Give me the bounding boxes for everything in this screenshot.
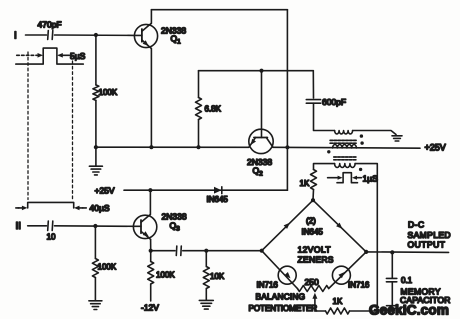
capacitor 600pF: [306, 100, 320, 104]
svg-text:2N338: 2N338: [247, 157, 272, 167]
resistor 100K (Q3 emitter): [148, 251, 154, 301]
wire input I to capacitor: [26, 34, 47, 36]
svg-text:0.1: 0.1: [401, 276, 413, 285]
resistor 100K (input bias): [93, 85, 99, 101]
transformer winding W2 (on +25V rail): [333, 145, 357, 149]
wire W3 left to 1K: [314, 164, 335, 170]
resistor 1K (bottom): [326, 308, 350, 314]
svg-text:I: I: [14, 31, 17, 42]
transistor Q3 2N338: [133, 215, 156, 240]
wire D-C sampled output: [366, 251, 448, 254]
transistor Q2 2N338: [249, 129, 273, 153]
wire capacitor to Q1 base: [55, 34, 135, 36]
svg-text:100K: 100K: [99, 88, 118, 97]
dashed timing line right: [72, 61, 74, 200]
wire Q3 emitter down: [150, 239, 152, 250]
node junction Q2 base feed: [259, 69, 263, 73]
svg-text:IN716: IN716: [257, 281, 279, 290]
W1 phase dot: [360, 134, 363, 137]
transformer winding W3: [335, 164, 355, 168]
wire drop continues to diode rail: [286, 147, 288, 190]
wire Q2 base vertical: [261, 71, 263, 130]
resistor 100K (input II): [92, 259, 98, 278]
wire Q1 collector up: [150, 10, 152, 24]
wire ground rail (left segment): [96, 146, 249, 148]
wire +25V rail (right segment): [273, 146, 420, 149]
W2 phase dot left: [327, 150, 330, 153]
svg-text:+25V: +25V: [425, 143, 446, 153]
wire +25V diode rail: [124, 189, 287, 191]
capacitor 10 (input II): [48, 221, 53, 231]
wire top rail drop to +25V rail: [286, 10, 288, 148]
svg-text:ZENERS: ZENERS: [298, 255, 334, 265]
node junction 6.8K/ground rail: [196, 145, 200, 149]
W2 phase dot right: [360, 141, 363, 144]
potentiometer wiper arrow: [312, 293, 317, 311]
svg-text:BALANCING: BALANCING: [256, 292, 306, 302]
ground (10K): [199, 300, 213, 309]
node junction memory capacitor: [390, 250, 394, 254]
wire top rail: [151, 9, 287, 11]
node junction II/100K: [93, 224, 97, 228]
wire capacitor to Q3 base: [55, 225, 134, 228]
node junction Q1 emitter/rail: [149, 145, 153, 149]
diode IN645 (rail): [214, 187, 222, 194]
ground (input II): [89, 301, 102, 310]
svg-text:SAMPLED: SAMPLED: [408, 230, 451, 240]
svg-text:+25V: +25V: [95, 186, 115, 196]
wire 6.8K top drop: [198, 71, 200, 98]
svg-text:-12V: -12V: [141, 303, 159, 313]
zener diode bridge arm lower-left (IN716): [262, 251, 298, 289]
node junction 10K top: [204, 249, 208, 253]
ground (memory capacitor): [387, 306, 398, 311]
pulse waveform I (5uS): [16, 48, 84, 64]
svg-text:250: 250: [305, 277, 319, 287]
capacitor 0.1 memory: [386, 278, 396, 281]
svg-text:40µS: 40µS: [90, 203, 110, 213]
svg-text:IN716: IN716: [348, 281, 370, 290]
node junction input/100K: [94, 33, 98, 37]
wire Q1 emitter down: [150, 48, 152, 147]
wire 1K to W3 right leg: [350, 310, 378, 312]
wire junction down to 100K: [94, 226, 96, 259]
diode bridge arm upper-right (IN645): [313, 200, 366, 252]
svg-text:POTENTIOMETER: POTENTIOMETER: [249, 304, 318, 313]
svg-text:GeekIC.com: GeekIC.com: [369, 303, 449, 318]
svg-text:100K: 100K: [98, 263, 117, 272]
ground (input section): [89, 166, 102, 175]
svg-text:470pF: 470pF: [38, 20, 62, 30]
svg-text:IN645: IN645: [302, 228, 324, 237]
svg-text:II: II: [16, 221, 22, 232]
wire input II to capacitor: [28, 225, 47, 227]
wire 600pF branch drop: [312, 71, 314, 98]
node junction Q3 emitter: [149, 249, 153, 253]
potentiometer 250 (element): [297, 286, 328, 292]
node bridge right: [364, 250, 368, 254]
node junction Q3 collector/rail: [148, 188, 152, 192]
wire wiper to 1K bottom: [315, 310, 326, 312]
svg-text:10K: 10K: [210, 272, 225, 281]
transformer core (upper): [330, 140, 356, 143]
svg-text:IN645: IN645: [207, 195, 229, 204]
capacitor C 470pF: [48, 31, 53, 40]
wire memory capacitor to ground: [391, 282, 393, 306]
wire junction down to 100K: [95, 35, 97, 85]
ground (W1): [392, 136, 402, 141]
svg-text:100K: 100K: [156, 271, 175, 280]
svg-text:6.8K: 6.8K: [205, 105, 222, 114]
wire 6.8K bottom to ground rail: [198, 120, 200, 148]
transistor Q1 2N338: [134, 23, 157, 48]
wire 6.8K rail: [199, 70, 314, 72]
resistor 10K: [203, 251, 209, 301]
svg-text:12VOLT: 12VOLT: [298, 245, 331, 255]
capacitor (coupling, emitter rail): [176, 246, 181, 256]
pulse waveform 1uS symbol: [328, 173, 362, 183]
wire W1 right to ground: [353, 131, 396, 135]
zener diode bridge arm lower-right (IN716): [329, 252, 367, 289]
wire ground stub: [95, 147, 97, 166]
wire output node to memory capacitor: [391, 252, 393, 278]
svg-text:D-C: D-C: [408, 220, 425, 230]
svg-text:1K: 1K: [300, 179, 310, 188]
dashed timing line left: [27, 52, 29, 200]
node bridge left: [260, 249, 264, 253]
wire Q3 collector up: [149, 190, 151, 214]
wire 600pF to W1: [314, 103, 335, 130]
resistor 1K (bridge feed): [311, 170, 317, 190]
svg-text:1µS: 1µS: [363, 174, 379, 184]
W3 phase dot: [359, 168, 362, 171]
svg-text:600pF: 600pF: [322, 97, 346, 107]
node junction 100K/ground rail: [94, 145, 98, 149]
svg-text:5µS: 5µS: [70, 51, 86, 61]
svg-text:(2): (2): [306, 217, 316, 226]
node bridge top: [311, 198, 315, 202]
resistor 6.8K: [196, 98, 202, 120]
diode bridge arm upper-left (IN645): [262, 200, 313, 251]
svg-text:OUTPUT: OUTPUT: [408, 240, 446, 250]
pulse waveform II (40uS): [16, 202, 87, 210]
svg-text:1K: 1K: [333, 297, 343, 306]
wire cap to bridge left node: [183, 250, 262, 252]
wire 100K to ground rail: [95, 100, 97, 147]
transformer winding W1: [335, 131, 353, 134]
node junction +25V rail/top drop: [285, 145, 289, 149]
wire emitter rail to coupling cap: [151, 250, 175, 252]
wire 1K to bridge top node: [312, 190, 315, 201]
transformer core (lower): [334, 157, 357, 160]
wire W3 right leg down: [355, 164, 377, 311]
wire 100K to ground: [94, 278, 96, 301]
svg-text:10: 10: [47, 233, 56, 242]
